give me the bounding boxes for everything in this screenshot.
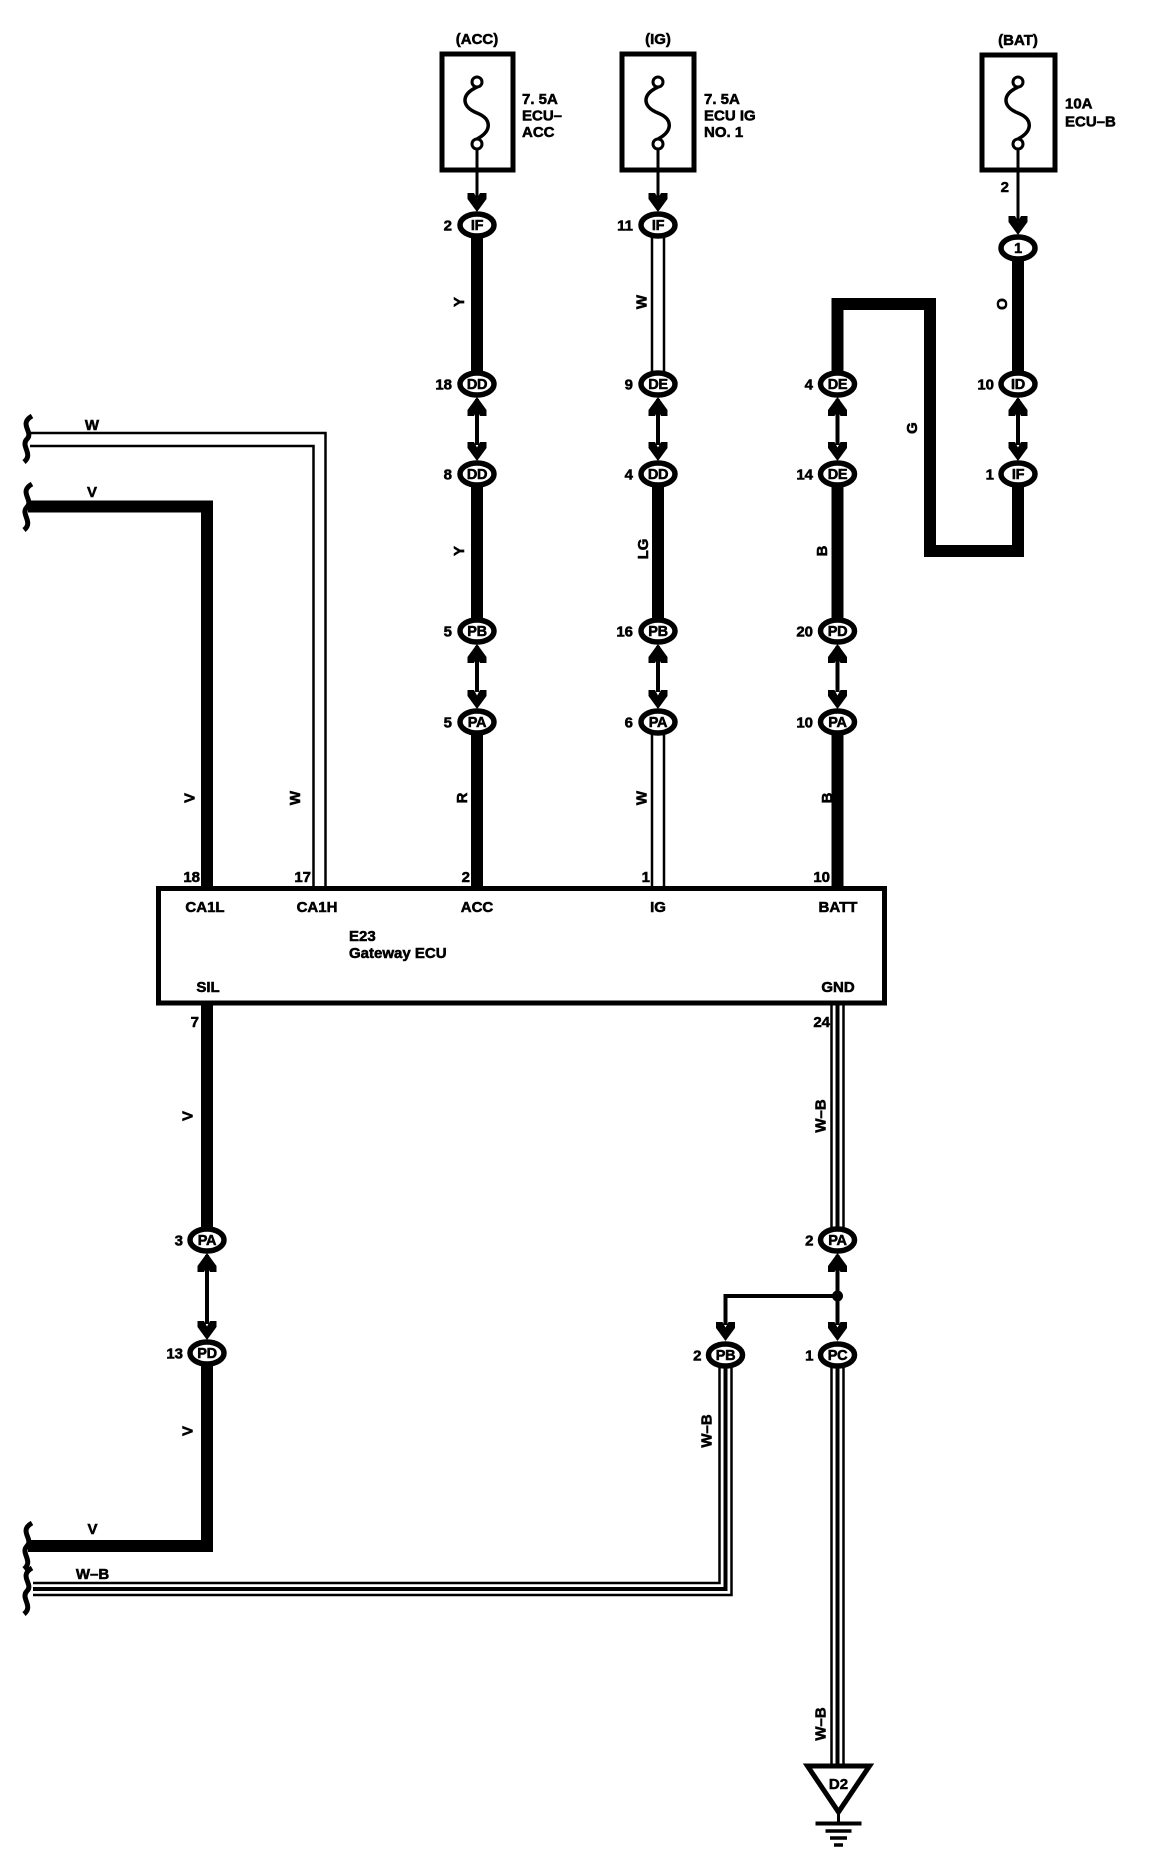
break mark W-B wire bottom left xyxy=(24,1568,32,1614)
connector DD pin 4 xyxy=(625,463,675,485)
connector DE pin 4 xyxy=(805,373,855,395)
connector PA pin 2 xyxy=(805,1229,854,1251)
svg-text:10: 10 xyxy=(796,715,813,732)
svg-text:14: 14 xyxy=(796,467,813,484)
connector pair link ID10-IF1 xyxy=(1009,397,1028,461)
svg-text:20: 20 xyxy=(796,624,813,641)
svg-text:4: 4 xyxy=(625,467,634,484)
wire V PD13 down to left edge xyxy=(28,1366,207,1546)
svg-text:(BAT): (BAT) xyxy=(998,32,1038,49)
svg-text:PA: PA xyxy=(828,1233,847,1249)
svg-text:5: 5 xyxy=(444,624,452,641)
svg-text:Y: Y xyxy=(451,297,468,307)
svg-text:1: 1 xyxy=(986,467,994,484)
svg-text:W–B: W–B xyxy=(699,1414,716,1448)
wire W IF11 to DE9 white xyxy=(634,238,665,372)
svg-text:10: 10 xyxy=(813,869,830,886)
connector PA pin 5 xyxy=(444,711,494,733)
connector PB pin 2 xyxy=(693,1344,742,1366)
svg-text:9: 9 xyxy=(625,377,633,394)
svg-text:PD: PD xyxy=(828,624,848,640)
svg-text:B: B xyxy=(814,545,831,556)
svg-text:ACC: ACC xyxy=(522,124,555,141)
svg-text:1: 1 xyxy=(805,1348,813,1365)
svg-text:11: 11 xyxy=(617,218,633,235)
fuse ECU IG NO.1 7.5A xyxy=(622,31,756,170)
svg-text:Gateway ECU: Gateway ECU xyxy=(349,945,447,962)
junction node xyxy=(832,1291,843,1302)
svg-text:DE: DE xyxy=(648,377,668,393)
svg-text:PA: PA xyxy=(468,715,487,731)
svg-text:Y: Y xyxy=(451,546,468,556)
connector IF pin 11 xyxy=(617,214,675,236)
svg-text:W: W xyxy=(634,294,651,309)
wire W-B GND to PA2 xyxy=(813,1003,844,1228)
wire G loop IF1 to DE4 xyxy=(838,304,1019,551)
svg-text:V: V xyxy=(180,1426,197,1436)
connector PA pin 6 xyxy=(625,711,675,733)
break mark V wire bottom left xyxy=(24,1523,32,1569)
svg-text:NO. 1: NO. 1 xyxy=(704,124,743,141)
fuse ECU-ACC 7.5A xyxy=(442,31,562,170)
svg-text:IF: IF xyxy=(471,218,484,234)
svg-text:CA1L: CA1L xyxy=(185,899,224,916)
svg-text:10A: 10A xyxy=(1065,96,1093,113)
svg-text:LG: LG xyxy=(635,539,652,560)
svg-text:PA: PA xyxy=(828,715,847,731)
wire Y DD8 to PB5 xyxy=(451,487,477,619)
svg-text:3: 3 xyxy=(175,1233,183,1250)
wire B PA10 to ECU BATT pin xyxy=(819,735,838,889)
svg-text:G: G xyxy=(904,422,921,434)
svg-text:D2: D2 xyxy=(829,1776,848,1793)
svg-text:CA1H: CA1H xyxy=(297,899,338,916)
svg-text:(IG): (IG) xyxy=(645,31,671,48)
svg-text:V: V xyxy=(87,1521,97,1538)
connector IF pin 2 xyxy=(444,214,494,236)
wire V left to ECU CA1L xyxy=(28,484,207,889)
wire PA2 to junction xyxy=(828,1253,847,1296)
svg-text:2: 2 xyxy=(444,218,452,235)
wire W PA6 to ECU IG pin white xyxy=(634,735,665,889)
connector pair link PB16-PA6 xyxy=(649,644,668,709)
connector pair link DE9-DD4 xyxy=(649,397,668,461)
break mark V wire left xyxy=(24,484,32,530)
svg-text:V: V xyxy=(182,793,199,803)
svg-text:V: V xyxy=(180,1111,197,1121)
svg-text:1: 1 xyxy=(1014,241,1022,257)
svg-text:18: 18 xyxy=(183,869,200,886)
wire W-B PB2 down to left edge xyxy=(33,1368,732,1595)
connector DD pin 8 xyxy=(444,463,494,485)
connector PC pin 1 xyxy=(805,1344,854,1366)
wire W left to ECU CA1H white xyxy=(30,417,326,889)
svg-text:7. 5A: 7. 5A xyxy=(522,91,558,108)
connector DE pin 9 xyxy=(625,373,675,395)
svg-text:6: 6 xyxy=(625,715,633,732)
svg-text:DE: DE xyxy=(828,377,848,393)
svg-text:DD: DD xyxy=(648,467,668,483)
svg-text:W–B: W–B xyxy=(813,1099,830,1133)
svg-text:24: 24 xyxy=(813,1014,830,1031)
svg-text:8: 8 xyxy=(444,467,452,484)
svg-text:7: 7 xyxy=(191,1014,199,1031)
wire fuse IG to IF11 xyxy=(657,149,660,198)
svg-text:13: 13 xyxy=(166,1346,183,1363)
connector 1 xyxy=(1001,237,1035,259)
ground D2 xyxy=(808,1766,870,1845)
svg-text:PD: PD xyxy=(197,1346,217,1362)
wire fuse BAT pin 2 to connector 1 xyxy=(1001,149,1018,221)
svg-text:DD: DD xyxy=(467,467,487,483)
svg-text:B: B xyxy=(819,792,836,803)
svg-text:R: R xyxy=(454,792,471,803)
svg-text:ECU IG: ECU IG xyxy=(704,108,756,125)
svg-text:PB: PB xyxy=(716,1348,736,1364)
svg-text:SIL: SIL xyxy=(196,979,219,996)
svg-text:GND: GND xyxy=(821,979,855,996)
svg-text:IF: IF xyxy=(1012,467,1025,483)
svg-text:W–B: W–B xyxy=(76,1566,110,1583)
fuse ECU-B 10A xyxy=(982,32,1116,170)
svg-text:ACC: ACC xyxy=(461,899,494,916)
svg-text:E23: E23 xyxy=(349,928,376,945)
wire V SIL to PA3 xyxy=(180,1003,208,1228)
svg-text:ECU–B: ECU–B xyxy=(1065,114,1116,131)
connector pair link PB5-PA5 xyxy=(468,644,487,709)
wire junction to PC1 xyxy=(828,1296,847,1341)
connector pair link DE4-DE14 xyxy=(828,397,847,461)
svg-text:PC: PC xyxy=(828,1348,848,1364)
connector PA pin 3 xyxy=(175,1229,224,1251)
connector PD pin 20 xyxy=(796,620,854,642)
svg-text:W: W xyxy=(634,790,651,805)
svg-text:17: 17 xyxy=(294,869,311,886)
svg-text:DE: DE xyxy=(828,467,848,483)
svg-text:W–B: W–B xyxy=(813,1707,830,1741)
connector pair link PD20-PA10 xyxy=(828,644,847,709)
break mark W wire left xyxy=(24,416,32,462)
svg-text:7. 5A: 7. 5A xyxy=(704,91,740,108)
connector PD pin 13 xyxy=(166,1342,224,1364)
connector pair link DD18-DD8 xyxy=(468,397,487,461)
svg-text:16: 16 xyxy=(616,624,633,641)
svg-text:W: W xyxy=(85,417,100,434)
svg-text:O: O xyxy=(994,298,1011,310)
connector DE pin 14 xyxy=(796,463,854,485)
svg-text:PA: PA xyxy=(198,1233,217,1249)
svg-text:4: 4 xyxy=(805,377,814,394)
connector PB pin 5 xyxy=(444,620,494,642)
ECU E23 Gateway ECU box xyxy=(159,889,885,1004)
connector PB pin 16 xyxy=(616,620,675,642)
svg-text:1: 1 xyxy=(642,869,650,886)
wire R PA5 to ECU ACC pin xyxy=(454,735,477,889)
connector DD pin 18 xyxy=(435,373,494,395)
connector PA pin 10 xyxy=(796,711,854,733)
svg-text:PB: PB xyxy=(467,624,487,640)
wire junction branch to PB2 xyxy=(716,1296,838,1341)
connector ID pin 10 xyxy=(977,373,1035,395)
svg-text:ID: ID xyxy=(1011,377,1025,393)
wire fuse ACC to IF2 xyxy=(476,149,479,198)
wire W-B PC1 to ground D2 xyxy=(813,1368,844,1767)
wire B DE14 to PD20 xyxy=(814,487,838,619)
connector pair link PA3-PD13 xyxy=(198,1253,217,1340)
svg-text:PA: PA xyxy=(649,715,668,731)
svg-text:V: V xyxy=(87,484,97,501)
svg-text:10: 10 xyxy=(977,377,994,394)
svg-text:ECU–: ECU– xyxy=(522,108,562,125)
svg-text:2: 2 xyxy=(1001,179,1009,196)
svg-text:DD: DD xyxy=(467,377,487,393)
svg-text:PB: PB xyxy=(648,624,668,640)
svg-text:IF: IF xyxy=(652,218,665,234)
svg-text:BATT: BATT xyxy=(819,899,858,916)
svg-text:2: 2 xyxy=(805,1233,813,1250)
svg-text:2: 2 xyxy=(693,1348,701,1365)
connector IF pin 1 xyxy=(986,463,1035,485)
svg-text:IG: IG xyxy=(650,899,666,916)
wire Y IF2 to DD18 xyxy=(451,238,477,372)
wire O connector1 to ID10 xyxy=(994,261,1018,372)
svg-text:(ACC): (ACC) xyxy=(456,31,499,48)
svg-text:W: W xyxy=(287,790,304,805)
wire LG DD4 to PB16 xyxy=(635,487,658,619)
svg-text:18: 18 xyxy=(435,377,452,394)
svg-text:2: 2 xyxy=(462,869,470,886)
svg-text:5: 5 xyxy=(444,715,452,732)
